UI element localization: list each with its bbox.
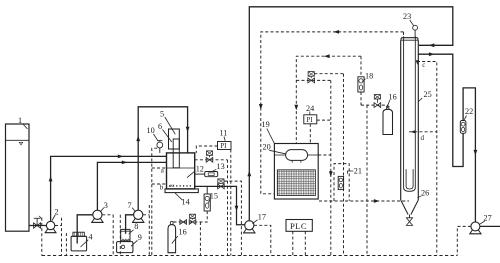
wire pump 2 riser to vessel feed line A	[51, 156, 167, 221]
svg-text:c: c	[422, 61, 425, 69]
svg-text:17: 17	[258, 212, 266, 221]
arrow down on recycle drop	[259, 104, 263, 110]
pump 3	[91, 210, 103, 222]
boat 20 inside reactor	[274, 150, 330, 163]
wire pump 7 riser over to vessel top	[138, 107, 187, 210]
arrow left on top recycle line	[334, 30, 340, 34]
label 18	[362, 72, 373, 82]
gas cylinder 16 (left)	[168, 222, 176, 253]
label 13	[213, 162, 225, 171]
wire dashed SV1 drop to bus	[227, 160, 229, 256]
svg-text:14: 14	[182, 198, 190, 207]
wire pump 3 riser to vessel feed line B	[97, 162, 166, 210]
solenoid control valve SV2 (on liquid line)	[218, 179, 225, 189]
wire pump 7 suction from flask 8	[126, 215, 134, 234]
wire dashed gauge 10 elbow and port lines to bus	[152, 148, 167, 255]
analyzer box 13	[195, 172, 218, 177]
wire dashed vessel headspace to solenoid valve SV1	[195, 159, 228, 161]
svg-text:22: 22	[465, 107, 473, 116]
wire dashed PI11 drop to bus	[230, 150, 232, 256]
rotameter 18	[358, 77, 364, 92]
label 8	[129, 222, 139, 234]
dashed enclosure pump 3 group	[66, 215, 113, 256]
tank 1	[6, 124, 30, 231]
arrow down on sample drop	[329, 171, 333, 177]
tray 14 under vessel	[165, 189, 198, 193]
arrow right to column	[374, 199, 380, 203]
wire dashed jacket line c to d	[409, 62, 437, 256]
label 24	[306, 104, 314, 115]
solenoid valve SV5	[308, 72, 315, 83]
relief valve 23 on column top	[413, 25, 418, 37]
absorption column 25	[401, 36, 419, 200]
wire dashed drop x200 to bus	[199, 222, 201, 256]
wire dashed SV2 control drop	[224, 181, 241, 255]
label 5	[160, 110, 175, 135]
wire dashed PLC drops to bus	[293, 231, 306, 255]
gas cylinder 16 (right)	[383, 106, 393, 134]
svg-text:b: b	[160, 184, 164, 192]
inner tube 26	[406, 169, 413, 189]
label 20	[263, 143, 286, 154]
solenoid valve SV3 on nitrogen line	[189, 214, 196, 224]
dashed enclosure pump 2 group	[42, 218, 62, 256]
svg-text:16: 16	[389, 93, 397, 102]
svg-text:16: 16	[179, 228, 187, 237]
svg-text:10: 10	[147, 126, 155, 135]
pressure indicator PI 11	[218, 142, 232, 151]
gas flowmeter 22 bulb	[460, 121, 466, 134]
pump 7	[132, 210, 144, 222]
vacuum pump 27	[469, 222, 500, 234]
label 9	[131, 233, 142, 246]
magnetic stirrer 9	[117, 242, 133, 253]
label 4	[81, 233, 93, 248]
label 3	[100, 201, 108, 212]
wire dashed pump 17 control to bus	[254, 225, 271, 255]
label 16 (left)	[172, 228, 187, 244]
arrow right on feed line A	[118, 155, 124, 159]
wire dashed branch with control valve SV5	[296, 79, 331, 81]
flask 8 on stirrer	[120, 229, 131, 241]
arrow up on pump 17 discharge	[247, 171, 251, 177]
svg-text:25: 25	[424, 90, 432, 99]
svg-text:PI: PI	[306, 116, 313, 124]
arrow left into column top	[429, 43, 435, 47]
svg-text:18: 18	[365, 72, 373, 81]
svg-text:3: 3	[104, 201, 108, 210]
feed funnel 5 (outer)	[169, 129, 180, 149]
gauge 10 on vessel top	[157, 141, 163, 153]
arrow up on pump2 riser	[49, 176, 53, 182]
label 14	[175, 193, 190, 207]
wire tank to valve to pump 2	[29, 225, 47, 227]
svg-text:11: 11	[220, 129, 228, 138]
svg-text:13: 13	[217, 162, 225, 171]
label 22	[464, 107, 473, 120]
svg-text:15: 15	[210, 192, 218, 201]
pump 17	[243, 221, 255, 233]
label 2	[52, 208, 59, 221]
wire dashed top recycle line	[261, 32, 404, 194]
arrow right on gas outlet	[429, 52, 435, 56]
PLC controller	[286, 220, 312, 232]
svg-text:19: 19	[262, 120, 270, 129]
svg-text:21: 21	[354, 166, 362, 175]
rotameter 15	[204, 186, 210, 211]
wire dashed through rotameter 18 to valve	[361, 56, 388, 255]
arrow down at port c	[416, 60, 419, 65]
nitrogen line from cylinder 16 to rotameter 15	[174, 211, 208, 222]
label 10	[147, 126, 159, 141]
label 19	[262, 120, 275, 143]
svg-text:d: d	[421, 134, 425, 142]
control bus (bottom dashed)	[42, 255, 458, 257]
svg-text:9: 9	[138, 233, 142, 242]
label 27	[480, 214, 492, 225]
svg-text:8: 8	[134, 222, 138, 231]
pump 2	[45, 221, 57, 232]
svg-text:1: 1	[18, 116, 22, 125]
svg-text:5: 5	[160, 110, 164, 119]
tube furnace reactor 19	[274, 144, 318, 200]
valve V1 (tank outlet)	[34, 216, 42, 228]
pressure indicator PI 24	[304, 115, 317, 124]
wire dashed solenoid control drop to bus	[343, 74, 345, 256]
label 11	[220, 129, 228, 141]
solenoid valve SV4 on cylinder line	[374, 95, 381, 108]
rotameter 21	[338, 176, 343, 189]
arrow right on feed line B	[122, 161, 128, 165]
column cone bottom	[401, 200, 419, 225]
svg-text:26: 26	[421, 189, 429, 198]
label 21	[348, 166, 362, 175]
sparger dots inside vessel bottom	[169, 185, 191, 187]
dashed enclosure pump 7 group	[120, 205, 149, 256]
arrow down to pump 27	[474, 150, 478, 156]
valve V2 on nitrogen line	[180, 220, 187, 225]
arrow left on inner gas line	[324, 54, 330, 58]
svg-text:6: 6	[158, 122, 162, 131]
wire dashed inner gas line to reactor	[296, 56, 361, 143]
wire dashed PI11 to vessel top	[196, 146, 217, 153]
wire dashed reactor outlet to column bottom	[319, 200, 409, 202]
wire liquid line tray to pump 17	[195, 186, 245, 224]
svg-text:PLC: PLC	[290, 221, 307, 231]
bypass loop with flowmeter 21	[334, 164, 349, 201]
label 7	[128, 201, 136, 212]
wire gas outlet column to flow path 22	[418, 54, 475, 222]
label 23	[403, 12, 414, 26]
label 17	[252, 212, 266, 223]
feed tube 6 (inner, into vessel)	[173, 139, 179, 168]
label 1	[18, 116, 28, 129]
label 12 with leader into vessel	[187, 165, 204, 178]
wire pump 17 discharge loop to column top	[249, 7, 452, 221]
arrow up on pump7 riser	[136, 136, 140, 142]
arrow down on vessel inlet drop	[186, 127, 190, 133]
wire dashed PI24 to reactor top	[309, 124, 311, 144]
label 25	[419, 90, 432, 102]
wire dashed pump 27 to bus	[457, 226, 471, 255]
arrow down into reactor top	[294, 105, 298, 111]
wire dashed PI24 right drop to bus	[317, 80, 331, 255]
arrow left at port d	[411, 130, 416, 133]
label 6	[158, 122, 172, 142]
svg-text:12: 12	[196, 165, 204, 174]
label 16 (right)	[388, 93, 397, 106]
svg-text:4: 4	[89, 233, 93, 242]
svg-text:PI: PI	[220, 142, 227, 150]
wire dashed SV5 to drop	[314, 73, 343, 75]
arrow down to pump 17	[235, 206, 239, 212]
wire pump 3 suction from bottle 4	[77, 215, 93, 244]
sparger hatch marks	[169, 185, 174, 187]
svg-text:7: 7	[128, 201, 132, 210]
reaction vessel (stirred reactor)	[167, 153, 195, 189]
label 15	[208, 192, 218, 204]
svg-text:23: 23	[403, 12, 411, 21]
bottle 4	[71, 232, 87, 251]
solenoid valve SV1 (on vessel gas port)	[206, 151, 213, 162]
label 26	[418, 189, 430, 198]
